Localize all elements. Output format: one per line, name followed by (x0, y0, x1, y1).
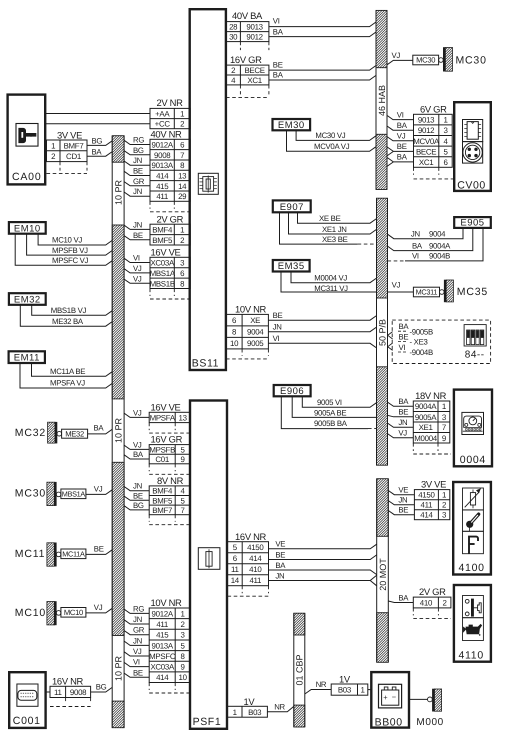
svg-text:BA: BA (133, 450, 144, 459)
svg-text:10: 10 (230, 339, 239, 348)
svg-text:2V NR: 2V NR (157, 97, 184, 108)
svg-text:2: 2 (180, 120, 184, 129)
svg-text:415: 415 (156, 182, 169, 191)
svg-text:9004: 9004 (247, 328, 264, 337)
svg-text:VJ: VJ (392, 281, 401, 290)
svg-text:VI: VI (399, 343, 406, 352)
svg-text:BE: BE (398, 408, 408, 417)
svg-text:-9005B: -9005B (410, 327, 433, 336)
pin table 1V (BB00 B03) (331, 673, 368, 695)
splice box E905 (454, 217, 491, 229)
svg-text:NR: NR (316, 680, 327, 689)
svg-text:2: 2 (231, 66, 235, 75)
svg-text:MC10 VJ: MC10 VJ (52, 236, 82, 245)
svg-text:VJ: VJ (133, 264, 142, 273)
svg-text:MC32: MC32 (15, 427, 46, 439)
svg-text:MBS1B: MBS1B (150, 279, 175, 288)
svg-text:16V VE: 16V VE (151, 246, 181, 257)
svg-text:MC311: MC311 (416, 288, 438, 297)
svg-text:9012: 9012 (246, 33, 262, 42)
svg-text:JN: JN (273, 323, 282, 332)
splice MC30 (right) (439, 58, 444, 63)
option block 84-- (392, 320, 490, 363)
svg-text:1: 1 (442, 491, 446, 500)
svg-text:16V VE: 16V VE (151, 401, 181, 412)
svg-text:BE: BE (133, 491, 143, 500)
svg-text:XC03A: XC03A (150, 259, 175, 268)
svg-text:-9004B: -9004B (410, 348, 433, 357)
svg-text:1V: 1V (244, 696, 256, 707)
svg-text:NR: NR (274, 703, 285, 712)
pin table 2V GR (BS11) (150, 213, 190, 245)
svg-text:BA: BA (275, 561, 286, 570)
svg-text:BA: BA (398, 397, 409, 406)
svg-text:BMF5: BMF5 (152, 496, 173, 505)
svg-text:0004: 0004 (460, 454, 486, 466)
svg-text:9013: 9013 (418, 116, 435, 125)
svg-text:30: 30 (229, 33, 238, 42)
svg-text:XC1: XC1 (419, 158, 433, 167)
sensor block 4100 (453, 482, 491, 575)
svg-text:E906: E906 (280, 386, 304, 397)
svg-text:2: 2 (180, 236, 184, 245)
svg-text:VJ: VJ (133, 440, 142, 449)
pin table 10V NR (BS11) (226, 304, 268, 359)
svg-text:410: 410 (420, 599, 433, 608)
svg-text:411: 411 (421, 501, 433, 510)
svg-text:VJ: VJ (397, 132, 406, 141)
pin table 3V VE (4100) (414, 479, 449, 520)
splice MC35 (440, 290, 445, 295)
svg-text:BA: BA (273, 27, 284, 36)
svg-text:JN: JN (133, 615, 142, 624)
svg-text:VE: VE (398, 486, 408, 495)
svg-text:MPSFB: MPSFB (149, 445, 175, 454)
svg-text:XC03A: XC03A (150, 663, 175, 672)
svg-text:VI: VI (133, 658, 140, 667)
svg-text:MC30: MC30 (416, 56, 435, 65)
fuel gauge F icon (4100 cell 3) (463, 531, 484, 553)
key icon (CA00) (16, 124, 38, 147)
svg-text:29: 29 (178, 192, 187, 201)
bus 50 P/B (377, 198, 388, 465)
wire box ME32 (62, 429, 88, 438)
svg-text:E905: E905 (460, 218, 484, 229)
svg-text:MPSFB VJ: MPSFB VJ (52, 246, 88, 255)
pin table 2V GR (4110) (413, 586, 451, 619)
wire box MC30 (413, 55, 439, 65)
svg-text:9012: 9012 (418, 126, 434, 135)
bus 46 HAB (376, 10, 387, 189)
svg-text:MC30: MC30 (456, 55, 487, 67)
bus 10 PR (112, 136, 124, 728)
svg-text:BE: BE (94, 544, 104, 553)
svg-text:MPSFA: MPSFA (150, 413, 176, 422)
svg-text:MPSFA VJ: MPSFA VJ (50, 379, 85, 388)
bus stub chevrons (84--) (388, 332, 393, 339)
svg-text:MC11A BE: MC11A BE (50, 367, 85, 376)
svg-text:VJ: VJ (133, 408, 142, 417)
svg-text:28: 28 (229, 23, 238, 32)
svg-text:XE BE: XE BE (319, 214, 341, 223)
svg-text:40V BA: 40V BA (232, 10, 263, 21)
battery BB00 (371, 672, 409, 729)
wire +CC from CA00 to BS11 (45, 123, 150, 125)
svg-text:MCV0A VJ: MCV0A VJ (314, 142, 350, 151)
svg-text:JN: JN (275, 572, 284, 581)
wire box MC10 (61, 608, 86, 618)
svg-text:−: − (392, 693, 397, 702)
svg-text:EM30: EM30 (278, 120, 305, 131)
svg-text:1: 1 (443, 116, 447, 125)
svg-text:7: 7 (181, 506, 185, 515)
connector C001 (9, 672, 45, 728)
svg-text:+CC: +CC (155, 120, 171, 129)
svg-text:RG: RG (133, 604, 144, 613)
svg-text:XE: XE (250, 316, 260, 325)
svg-text:11: 11 (231, 565, 239, 574)
svg-text:11: 11 (54, 688, 62, 697)
pin table 3V VE (CA00) (47, 129, 88, 173)
svg-text:14: 14 (231, 576, 240, 585)
svg-text:MC10: MC10 (15, 607, 46, 619)
svg-text:VJ: VJ (94, 484, 103, 493)
svg-text:JN: JN (133, 636, 142, 645)
splice box E906 (274, 385, 311, 397)
svg-text:MBS1A: MBS1A (62, 489, 86, 498)
svg-text:BG: BG (133, 501, 144, 510)
svg-text:BE: BE (273, 311, 283, 320)
svg-text:XC1: XC1 (247, 76, 261, 85)
svg-text:BMF5: BMF5 (152, 236, 173, 245)
svg-text:4150: 4150 (247, 543, 264, 552)
svg-text:4100: 4100 (459, 562, 485, 574)
svg-text:414: 414 (249, 554, 262, 563)
svg-text:414: 414 (156, 673, 169, 682)
svg-text:GR: GR (133, 177, 145, 186)
splice box EM35 (273, 260, 310, 272)
svg-text:411: 411 (156, 620, 168, 629)
svg-text:16V GR: 16V GR (151, 434, 183, 445)
svg-text:M0004: M0004 (414, 434, 438, 443)
fuse box PSF1 (190, 401, 227, 729)
svg-text:VJ: VJ (133, 274, 142, 283)
svg-text:BE: BE (133, 167, 143, 176)
gauge icon (0004) (462, 412, 484, 434)
svg-text:2V GR: 2V GR (157, 213, 184, 224)
svg-text:ME32 BA: ME32 BA (52, 317, 84, 326)
svg-text:BB00: BB00 (375, 717, 403, 729)
component CV00 (454, 102, 491, 191)
svg-text:MC30 VJ: MC30 VJ (315, 131, 345, 140)
svg-text:BG: BG (133, 146, 144, 155)
svg-text:13: 13 (179, 413, 188, 422)
svg-text:10 PR: 10 PR (114, 417, 124, 443)
link B03 table to BB00 (368, 689, 372, 691)
svg-text:EM32: EM32 (14, 295, 41, 306)
svg-text:10: 10 (179, 673, 188, 682)
svg-text:9008: 9008 (154, 151, 171, 160)
temperature probe icon (4100 cell 2) (463, 510, 484, 531)
svg-text:MC311 VJ: MC311 VJ (314, 284, 348, 293)
svg-text:411: 411 (249, 576, 261, 585)
svg-text:MCV0A: MCV0A (413, 137, 440, 146)
svg-text:9004A: 9004A (415, 402, 437, 411)
wire box MBS1A (61, 489, 86, 499)
svg-text:GR: GR (133, 626, 145, 635)
switch block 4110 (454, 585, 491, 662)
svg-text:B03: B03 (248, 708, 262, 717)
svg-text:9004A: 9004A (429, 241, 451, 250)
svg-text:JN: JN (133, 220, 142, 229)
svg-text:BA: BA (399, 322, 410, 331)
svg-text:CD1: CD1 (66, 152, 81, 161)
svg-text:BE: BE (133, 231, 143, 240)
svg-text:BE: BE (273, 60, 283, 69)
svg-text:10V NR: 10V NR (235, 304, 267, 315)
svg-text:BG: BG (92, 137, 103, 146)
connector CA00 (ignition switch) (8, 95, 46, 185)
svg-text:6V GR: 6V GR (420, 103, 447, 114)
svg-text:VI: VI (133, 254, 140, 263)
pin table 40V BA (BS11) (226, 10, 269, 50)
control unit BS11 (190, 9, 226, 370)
pin table 16V VE (PSF1) (149, 401, 190, 433)
svg-text:1: 1 (180, 225, 184, 234)
svg-text:1: 1 (51, 141, 55, 150)
svg-text:M000: M000 (416, 717, 443, 728)
svg-text:VJ: VJ (133, 647, 142, 656)
svg-text:2: 2 (51, 152, 55, 161)
svg-text:BA: BA (397, 121, 408, 130)
svg-text:BA: BA (94, 424, 105, 433)
svg-text:XE1 JN: XE1 JN (322, 225, 347, 234)
svg-text:BA: BA (398, 593, 409, 602)
svg-text:BE: BE (399, 333, 409, 342)
svg-text:10 PR: 10 PR (114, 179, 124, 205)
svg-text:2: 2 (442, 501, 446, 510)
svg-text:16V NR: 16V NR (235, 531, 267, 542)
svg-text:9013: 9013 (246, 23, 263, 32)
svg-text:9005B BA: 9005B BA (314, 419, 348, 428)
svg-text:9012A: 9012A (152, 609, 174, 618)
svg-text:14: 14 (178, 182, 187, 191)
splice box EM32 (9, 293, 46, 305)
svg-text:MBS1A: MBS1A (150, 269, 176, 278)
svg-text:1: 1 (181, 609, 185, 618)
svg-text:JN: JN (398, 418, 407, 427)
svg-text:BMF7: BMF7 (64, 141, 84, 150)
ground M000 (428, 697, 433, 702)
svg-text:3V VE: 3V VE (57, 129, 82, 140)
svg-text:C01: C01 (155, 455, 169, 464)
svg-text:BMF7: BMF7 (152, 506, 172, 515)
dashed link 18V NR table to 0004 (438, 453, 451, 455)
door switch icon (4110 cell 1) (463, 596, 484, 618)
splice box EM10 (9, 222, 46, 234)
svg-text:411: 411 (156, 192, 168, 201)
svg-text:410: 410 (249, 565, 262, 574)
svg-text:BG: BG (96, 682, 107, 691)
svg-text:VJ: VJ (398, 429, 407, 438)
pin table 16V NR (C001) (50, 675, 91, 706)
svg-text:EM35: EM35 (278, 261, 305, 272)
pin table 16V VE (BS11) (150, 246, 191, 299)
svg-text:9005 VI: 9005 VI (317, 398, 342, 407)
svg-text:XE1: XE1 (419, 423, 433, 432)
svg-text:MPSFC: MPSFC (149, 652, 176, 661)
pin table 16V GR (BS11) (226, 54, 269, 97)
splice box EM30 (273, 119, 311, 131)
svg-text:13: 13 (178, 172, 187, 181)
svg-text:MPSFC VJ: MPSFC VJ (52, 256, 89, 265)
svg-text:2V GR: 2V GR (419, 586, 446, 597)
svg-text:9005A BE: 9005A BE (314, 408, 346, 417)
svg-text:XE3 BE: XE3 BE (322, 235, 348, 244)
svg-text:C001: C001 (13, 715, 41, 727)
svg-text:1V: 1V (339, 673, 351, 684)
dip switch icon (84--) (464, 325, 486, 346)
svg-text:BMF4: BMF4 (152, 487, 173, 496)
svg-text:JN: JN (411, 230, 420, 239)
svg-text:18V NR: 18V NR (415, 390, 447, 401)
pin table 10V NR (PSF1) (149, 597, 190, 693)
svg-text:+AA: +AA (155, 110, 170, 119)
svg-text:+: + (383, 693, 388, 702)
svg-text:BA: BA (273, 71, 284, 80)
wire box MC11A (61, 549, 86, 559)
svg-text:BE: BE (397, 142, 407, 151)
svg-text:8V NR: 8V NR (157, 475, 184, 486)
wire BB00 to ground M000 (409, 698, 428, 700)
svg-text:RG: RG (133, 136, 144, 145)
svg-text:84--: 84-- (465, 350, 485, 361)
svg-text:BA: BA (92, 147, 103, 156)
svg-text:MC35: MC35 (457, 286, 488, 298)
svg-text:BECE: BECE (244, 66, 264, 75)
svg-text:1: 1 (233, 708, 237, 717)
svg-text:2: 2 (443, 599, 447, 608)
svg-text:VE: VE (275, 540, 285, 549)
svg-text:BA: BA (397, 153, 408, 162)
svg-text:BE: BE (398, 506, 408, 515)
svg-text:50 P/B: 50 P/B (377, 319, 387, 346)
svg-text:2: 2 (181, 620, 185, 629)
svg-text:10V NR: 10V NR (151, 597, 183, 608)
svg-text:MBS1B VJ: MBS1B VJ (51, 306, 87, 315)
pin table 8V NR (PSF1) (149, 475, 190, 525)
bus 20 MOT (377, 479, 389, 663)
svg-text:VI: VI (397, 110, 404, 119)
bus 01 CBP (294, 613, 305, 727)
svg-text:9013A: 9013A (152, 641, 174, 650)
instrument cluster 0004 (454, 390, 492, 467)
svg-text:415: 415 (156, 631, 169, 640)
svg-text:MC11: MC11 (15, 548, 45, 560)
wire +AA from CA00 to BS11 (45, 113, 150, 115)
svg-text:CA00: CA00 (12, 171, 41, 183)
link C001 to table (46, 691, 50, 693)
svg-text:CV00: CV00 (457, 179, 486, 191)
connector icon (C001) (17, 684, 38, 706)
svg-text:BE: BE (275, 550, 285, 559)
pin table 18V NR (0004) (413, 390, 450, 454)
svg-text:VJ: VJ (94, 603, 103, 612)
svg-text:VI: VI (412, 252, 419, 261)
svg-text:1: 1 (442, 402, 446, 411)
svg-text:M0004 VJ: M0004 VJ (314, 273, 347, 282)
pin table 6V GR (CV00) (413, 103, 452, 175)
svg-text:BMF4: BMF4 (152, 225, 173, 234)
svg-text:9004: 9004 (429, 230, 446, 239)
svg-text:40V NR: 40V NR (151, 129, 183, 140)
svg-text:VJ: VJ (392, 51, 401, 60)
svg-text:JN: JN (133, 482, 142, 491)
svg-text:9005A: 9005A (415, 413, 437, 422)
wire box MC311 (413, 287, 439, 297)
svg-text:- XE3: - XE3 (410, 338, 428, 347)
svg-text:9005: 9005 (247, 339, 264, 348)
svg-text:EM10: EM10 (14, 223, 41, 234)
pin table 16V GR (PSF1) (149, 434, 190, 475)
svg-text:16V GR: 16V GR (230, 54, 262, 65)
svg-text:EM11: EM11 (14, 353, 40, 364)
svg-text:E907: E907 (280, 202, 304, 213)
svg-text:JN: JN (398, 496, 407, 505)
svg-text:1: 1 (361, 686, 365, 695)
svg-text:4150: 4150 (418, 491, 435, 500)
relay/fuse icon (BS11) (198, 173, 218, 194)
svg-text:BE: BE (133, 668, 143, 677)
svg-text:PSF1: PSF1 (193, 716, 222, 728)
svg-text:9004B: 9004B (429, 252, 450, 261)
svg-text:MC11A: MC11A (62, 549, 85, 558)
svg-text:7: 7 (442, 423, 446, 432)
battery icon (BB00) (379, 684, 402, 708)
svg-text:MC10: MC10 (64, 608, 83, 617)
svg-text:ME32: ME32 (65, 429, 84, 438)
splice box EM11 (9, 351, 45, 363)
svg-text:10 PR: 10 PR (114, 655, 124, 681)
variable resistor icon (4100 cell 1) (463, 488, 484, 510)
oil can icon (4110 cell 2) (463, 618, 484, 641)
pin table 2V NR (BS11) (150, 97, 190, 129)
svg-text:16V NR: 16V NR (52, 675, 84, 686)
svg-text:3V VE: 3V VE (421, 479, 446, 490)
svg-text:VI: VI (273, 17, 280, 26)
svg-text:B03: B03 (338, 686, 352, 695)
svg-text:01 CBP: 01 CBP (295, 654, 305, 685)
svg-text:9013A: 9013A (152, 161, 174, 170)
svg-text:414: 414 (156, 172, 169, 181)
svg-text:JN: JN (133, 156, 142, 165)
fuse icon (PSF1) (198, 548, 220, 570)
svg-text:4110: 4110 (459, 649, 484, 661)
svg-text:46 HAB: 46 HAB (377, 85, 387, 116)
pin table 1V (PSF1 B03) (227, 696, 267, 717)
svg-text:20 MOT: 20 MOT (378, 558, 388, 591)
svg-text:7: 7 (180, 151, 184, 160)
svg-text:BS11: BS11 (192, 358, 219, 370)
pin table 16V NR (PSF1) (228, 531, 269, 596)
pin table 40V NR (BS11) (150, 129, 190, 212)
svg-text:BA: BA (412, 241, 423, 250)
svg-text:1: 1 (180, 110, 184, 119)
svg-text:JN: JN (133, 187, 142, 196)
dashed link 6V GR table to CV00 (414, 178, 455, 180)
svg-text:VI: VI (273, 334, 280, 343)
splice box E907 (273, 200, 311, 213)
